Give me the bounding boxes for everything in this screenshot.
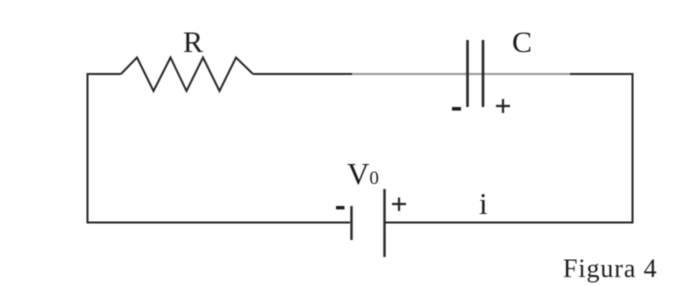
capacitor C right plate xyxy=(482,40,485,107)
wire top right black segment xyxy=(570,73,634,75)
capacitor minus sign xyxy=(452,107,461,111)
wire bottom left segment xyxy=(87,222,351,224)
wire top middle black segment xyxy=(253,73,352,75)
wire left vertical xyxy=(87,73,89,223)
capacitor C left plate xyxy=(466,40,469,107)
wire top-left segment xyxy=(87,73,122,75)
wire right vertical xyxy=(632,73,634,224)
svg-text:C: C xyxy=(512,26,532,59)
svg-text:Figura 4: Figura 4 xyxy=(563,254,658,283)
svg-text:R: R xyxy=(183,26,203,59)
wire bottom right segment xyxy=(385,222,634,224)
battery minus sign xyxy=(336,206,345,209)
battery plus sign xyxy=(392,198,406,212)
wire top gray segment through capacitor xyxy=(352,73,570,75)
svg-text:i: i xyxy=(479,186,488,221)
battery V0 short negative plate xyxy=(350,206,352,240)
resistor R xyxy=(121,58,253,92)
capacitor plus sign xyxy=(496,99,510,113)
battery V0 long positive plate xyxy=(383,189,385,257)
svg-text:V0: V0 xyxy=(347,156,379,191)
